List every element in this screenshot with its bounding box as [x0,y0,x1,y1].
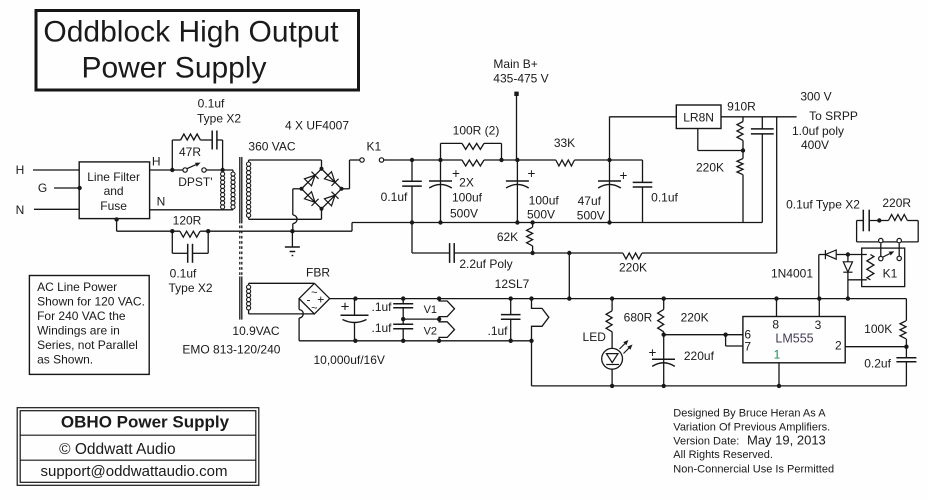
wire heater plus rail [330,298,907,300]
svg-text:360 VAC: 360 VAC [248,139,295,153]
capacitor 0.1uf Type X2 lower with branch [171,231,173,253]
svg-text:0.1uf Type X2: 0.1uf Type X2 [786,198,860,212]
svg-text:.1uf: .1uf [487,324,508,338]
svg-text:0.2uf: 0.2uf [864,356,891,370]
svg-text:.1uf: .1uf [371,321,392,335]
wire heater secondary top to FBR [249,282,315,284]
svg-text:120R: 120R [173,213,202,227]
wire switch to transformer primary top [206,169,233,171]
svg-text:FBR: FBR [306,266,330,280]
svg-text:47uf: 47uf [578,194,602,208]
capacitor .1uf heater lower [402,308,404,324]
capacitor 0.1uf bank second [642,160,644,182]
wire secondary top to bridge [249,159,322,161]
capacitor 2X 100uf 500V [440,160,442,181]
wire timer junction to pins 6 7 [664,334,743,336]
capacitor 0.1uf Type X2 upper [211,131,213,150]
transformer heater core [239,276,241,319]
capacitor 0.2uf [905,347,907,358]
wire pin 2 to threshold [845,346,906,348]
wire G [54,187,79,189]
svg-text:DPST': DPST' [178,175,212,189]
wire cap rail to sense rail [411,223,413,254]
svg-text:1N4001: 1N4001 [771,267,813,281]
capacitor 220uf [663,335,665,360]
svg-text:Shown for 120 VAC.: Shown for 120 VAC. [37,294,145,308]
timer LM555 [743,317,845,363]
svg-text:300 V: 300 V [800,89,831,103]
svg-text:Fuse: Fuse [100,199,127,213]
svg-text:0.1uf: 0.1uf [381,190,408,204]
svg-text:100uf: 100uf [452,191,483,205]
svg-text:K1: K1 [366,139,381,153]
svg-text:Designed By Bruce Heran As A: Designed By Bruce Heran As A [673,407,826,419]
wire 47R snubber branch left [171,140,173,170]
title box [36,11,359,91]
svg-text:Non-Connercial Use Is Permitte: Non-Connercial Use Is Permitted [673,464,834,476]
svg-text:+: + [649,345,657,360]
svg-text:LM555: LM555 [775,331,813,345]
svg-text:1.0uf poly: 1.0uf poly [792,124,844,138]
svg-text:100uf: 100uf [529,193,560,207]
wire heater minus rail [299,340,531,342]
svg-text:0.1uf: 0.1uf [651,191,678,205]
svg-text:K1: K1 [883,266,898,280]
wire X2 cap to switch output [217,139,223,141]
capacitor 1.0uf poly 400V [761,117,763,129]
svg-text:To SRPP: To SRPP [809,109,858,123]
svg-text:8: 8 [772,317,779,331]
svg-text:V2: V2 [424,325,437,337]
svg-text:100R (2): 100R (2) [453,123,500,137]
svg-text:Main B+: Main B+ [493,57,537,71]
wire heater rail to control ground [531,341,533,386]
wire heater secondary bottom to FBR [249,313,315,315]
svg-text:support@oddwattaudio.com: support@oddwattaudio.com [40,463,227,480]
wire bridge minus to ground with hop [293,188,302,190]
switch DPST [183,168,187,172]
svg-text:Oddblock High Output: Oddblock High Output [43,15,339,48]
svg-text:100K: 100K [864,322,892,336]
transformer core [239,157,241,223]
svg-text:Windings are in: Windings are in [37,323,120,337]
svg-text:62K: 62K [497,230,518,244]
wire filter N output to primary bottom [150,209,233,211]
resistor 100R lower of pair [462,160,484,166]
svg-text:47R: 47R [179,145,201,159]
svg-text:Series, not Parallel: Series, not Parallel [37,338,138,352]
svg-text:+: + [528,166,536,181]
ground symbol [291,231,293,246]
svg-text:500V: 500V [527,208,555,222]
wire AC ground rail [117,230,180,232]
capacitor 2.2uf Poly [449,243,451,263]
svg-text:N: N [157,195,166,209]
wire LR8N adjust [697,129,699,151]
svg-text:1: 1 [774,347,781,361]
wire heater mid tap [401,317,405,321]
svg-text:220K: 220K [619,260,647,274]
relay contact K1 [880,243,882,256]
transformer primary winding 1 [222,170,224,172]
svg-text:as Shown.: as Shown. [37,352,93,366]
wire B+ rail right [575,159,643,161]
svg-text:220uf: 220uf [684,349,715,363]
line filter and fuse module [79,162,149,219]
svg-text:220K: 220K [696,161,724,175]
svg-text:© Oddwatt Audio: © Oddwatt Audio [59,441,176,458]
svg-text:12SL7: 12SL7 [495,277,530,291]
capacitor 10000uf 16V [354,299,356,316]
svg-text:EMO 813-120/240: EMO 813-120/240 [182,342,280,356]
wire sense rail [454,252,623,254]
svg-text:400V: 400V [801,138,829,152]
resistor 47R [181,134,201,140]
wire FBR minus drop with hop [298,299,300,310]
svg-text:LR8N: LR8N [683,111,714,125]
wire N [34,208,79,210]
svg-text:~: ~ [311,302,317,314]
wire H [33,169,79,171]
note AC line power box [29,276,149,375]
capacitor .1uf heater upper [402,299,404,304]
capacitor 0.1uf bank first [411,160,413,182]
svg-text:Type X2: Type X2 [168,281,212,295]
wire pin 8 supply [776,299,778,317]
wire secondary bottom to bridge [249,218,322,220]
svg-text:H: H [152,154,161,168]
wire pin 1 ground [778,363,780,386]
capacitor 100uf 500V [516,160,518,181]
capacitor 47uf 500V [609,160,611,181]
svg-text:+: + [341,298,350,315]
wire snubber to contacts [917,221,919,242]
wire filter H output to switch [150,169,184,171]
diode 1N4001 series [843,262,852,272]
svg-text:33K: 33K [554,136,575,150]
svg-text:3: 3 [815,318,822,332]
svg-text:AC Line Power: AC Line Power [37,280,117,294]
svg-text:Type X2: Type X2 [197,112,241,126]
svg-text:H: H [16,163,25,177]
svg-text:V1: V1 [424,304,437,316]
svg-text:All Rights Reserved.: All Rights Reserved. [673,449,773,461]
svg-text:435-475 V: 435-475 V [493,72,548,86]
svg-text:4 X UF4007: 4 X UF4007 [285,119,349,133]
wire bridge plus to K1 [342,188,350,190]
svg-text:680R: 680R [624,311,653,325]
svg-text:and: and [104,184,124,198]
capacitor .1uf 12SL7 [510,299,512,315]
wire 47R to C X2 [200,139,212,141]
svg-text:May 19, 2013: May 19, 2013 [747,433,826,448]
svg-text:0.1uf: 0.1uf [170,266,197,280]
svg-text:2X: 2X [459,176,474,190]
svg-text:220K: 220K [681,311,709,325]
wire sense to heater plus rail [568,253,570,299]
svg-text:2: 2 [835,338,842,352]
svg-text:LED: LED [583,330,607,344]
svg-text:Power Supply: Power Supply [81,52,266,85]
svg-text:For 240 VAC the: For 240 VAC the [37,309,126,323]
svg-text:10.9VAC: 10.9VAC [232,324,279,338]
svg-text:Version Date:: Version Date: [673,436,739,448]
svg-text:+: + [620,168,628,183]
wire sense rail right [642,252,777,254]
resistor 120R [180,231,200,237]
relay coil [848,254,867,256]
svg-text:-: - [307,293,311,307]
svg-text:7: 7 [744,340,751,354]
svg-text:500V: 500V [450,206,478,220]
svg-text:2.2uf Poly: 2.2uf Poly [459,257,512,271]
svg-text:OBHO Power Supply: OBHO Power Supply [61,413,230,432]
svg-text:G: G [38,181,47,195]
svg-text:910R: 910R [727,100,756,114]
transformer primary winding 2 [232,170,234,172]
wire DC negative rail [351,223,353,232]
svg-text:10,000uf/16V: 10,000uf/16V [313,353,384,367]
wire ground rail mid [200,230,352,232]
svg-text:500V: 500V [577,209,605,223]
transformer heater secondary 10.9VAC [247,285,251,289]
svg-text:220R: 220R [882,196,911,210]
svg-text:.1uf: .1uf [371,300,392,314]
wire pin 3 output riser [818,255,820,299]
svg-text:Line Filter: Line Filter [87,170,140,184]
title block OBHO [17,408,259,486]
regulator LR8N [609,117,611,161]
svg-text:N: N [16,203,25,217]
wire B+ rail [384,159,463,161]
wire SRPP sense drop [776,117,778,253]
wire Main B+ drop [516,96,518,160]
svg-text:0.1uf: 0.1uf [198,97,225,111]
wire filter case ground stub [116,219,118,232]
wire LR8N output line [721,116,797,118]
svg-text:+: + [317,292,324,306]
relay K1 box [862,248,905,287]
wire B+ rail mid [484,159,556,161]
